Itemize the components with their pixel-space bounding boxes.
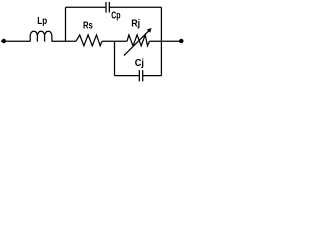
resistor Rs <box>76 35 102 46</box>
wire left terminal to inductor <box>1 40 30 42</box>
resistor Rj arrow shaft <box>124 31 149 56</box>
wire vertical up from node after Lp <box>65 7 67 41</box>
svg-text:Lp: Lp <box>37 15 47 27</box>
capacitor Cp plates <box>106 2 109 13</box>
wire inductor to Rs (junction at x=65.5) <box>52 40 76 42</box>
node left terminal dot <box>2 39 5 42</box>
wire bottom rail left of Cj <box>115 75 139 77</box>
svg-text:Rj: Rj <box>131 18 140 30</box>
svg-text:Rs: Rs <box>83 20 93 32</box>
wire right vertical (top rail to bottom rail) <box>160 7 162 75</box>
inductor Lp <box>30 31 52 41</box>
node right terminal dot <box>180 39 184 43</box>
wire top rail right of Cp <box>109 6 161 8</box>
resistor Rj (variable) zigzag <box>127 35 150 46</box>
svg-text:Cj: Cj <box>135 57 144 69</box>
wire Rs to Rj (junction at x=114.5) <box>102 40 127 42</box>
capacitor Cj plates <box>139 70 142 81</box>
wire top rail left of Cp <box>66 6 106 8</box>
wire bottom rail right of Cj <box>143 75 162 77</box>
svg-text:Cp: Cp <box>111 9 120 21</box>
wire Rj to right terminal (junction at x=161.4) <box>150 40 182 42</box>
resistor Rj arrowhead <box>147 28 152 33</box>
wire vertical down from node before Rj <box>114 41 116 75</box>
